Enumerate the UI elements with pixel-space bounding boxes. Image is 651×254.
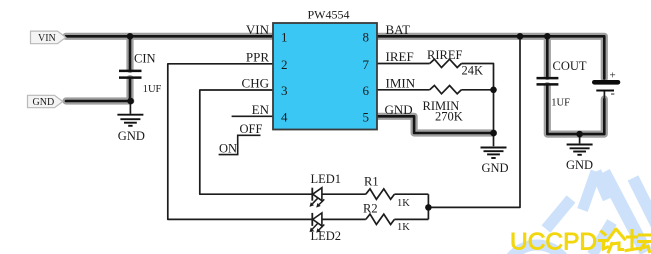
- svg-text:2: 2: [281, 57, 288, 72]
- svg-text:IMIN: IMIN: [386, 76, 416, 91]
- svg-text:24K: 24K: [462, 63, 484, 77]
- svg-text:EN: EN: [252, 102, 270, 117]
- svg-text:1K: 1K: [397, 198, 410, 209]
- LED2: [310, 213, 325, 233]
- svg-text:CHG: CHG: [242, 76, 269, 91]
- svg-text:5: 5: [363, 109, 370, 124]
- capacitor COUT: [537, 78, 559, 84]
- wire ground stub mid: [493, 133, 495, 146]
- terminal VIN: [31, 31, 66, 44]
- svg-text:GND: GND: [385, 102, 413, 117]
- node R1R2 join: [425, 204, 432, 211]
- svg-text:PPR: PPR: [246, 50, 269, 65]
- node VIN/CIN: [127, 33, 134, 40]
- wire LED2 to R2: [322, 218, 429, 220]
- thick wires: [66, 36, 604, 134]
- thin wires: [130, 36, 604, 219]
- IC U1 PW4554 body: [273, 23, 377, 130]
- ground (charger GND pin net): [481, 148, 507, 159]
- wire CHG to LED1: [200, 90, 312, 194]
- svg-text:R2: R2: [363, 202, 378, 216]
- svg-text:RIREF: RIREF: [427, 48, 462, 62]
- ground (battery/COUT rail): [567, 145, 593, 155]
- svg-text:GND: GND: [482, 161, 509, 175]
- wire BAT net: [377, 36, 604, 78]
- svg-text:COUT: COUT: [553, 59, 587, 73]
- watermark CJK LUN glyph: [600, 230, 625, 252]
- resistor RIMIN: [430, 86, 462, 94]
- svg-text:VIN: VIN: [246, 22, 270, 37]
- wire ground stub left: [129, 101, 131, 114]
- svg-text:4: 4: [281, 109, 288, 124]
- wire battery neg stub: [603, 91, 605, 101]
- wire PPR to LED2: [168, 64, 312, 220]
- svg-text:8: 8: [363, 29, 370, 44]
- wire ground stub right: [579, 134, 581, 143]
- svg-text:CIN: CIN: [134, 52, 156, 66]
- node GND join: [490, 130, 497, 137]
- switch annotation OFF/ON: [219, 135, 261, 154]
- svg-text:3: 3: [281, 83, 288, 98]
- wire IREF lead: [377, 64, 494, 134]
- svg-text:PW4554: PW4554: [308, 8, 350, 22]
- wire EN stub: [232, 115, 273, 117]
- svg-text:VIN: VIN: [38, 33, 56, 44]
- wire R1R2 join to BAT: [428, 36, 520, 219]
- resistor RIREF: [430, 59, 462, 67]
- capacitor CIN: [119, 71, 142, 78]
- svg-text:1: 1: [281, 29, 288, 44]
- battery B1: [594, 70, 618, 101]
- svg-text:UCCPD: UCCPD: [510, 229, 597, 254]
- node GND/CIN: [127, 98, 134, 105]
- svg-text:OFF: OFF: [240, 122, 263, 136]
- svg-text:1UF: 1UF: [143, 84, 162, 95]
- wire battery negative / bottom rail: [547, 86, 604, 135]
- wire GND left net: [66, 79, 131, 101]
- svg-text:+: +: [610, 70, 616, 82]
- svg-text:GND: GND: [33, 97, 55, 108]
- svg-text:-: -: [611, 85, 615, 100]
- node BAT/LED feed: [517, 33, 524, 40]
- watermark CJK TAN glyph: [626, 231, 651, 252]
- svg-text:1K: 1K: [397, 222, 410, 233]
- svg-text:270K: 270K: [435, 109, 463, 123]
- resistor R2: [366, 214, 395, 224]
- ground (under CIN): [117, 115, 143, 126]
- wire GND pin5 net: [377, 116, 494, 133]
- terminal GND: [28, 95, 63, 108]
- svg-text:IREF: IREF: [386, 49, 414, 64]
- svg-text:1UF: 1UF: [551, 98, 570, 109]
- LED1: [310, 188, 325, 208]
- resistor R1: [366, 189, 395, 199]
- svg-text:7: 7: [363, 57, 370, 72]
- wire VIN net: [66, 36, 273, 69]
- svg-text:LED2: LED2: [311, 229, 342, 243]
- svg-text:GND: GND: [566, 158, 593, 172]
- node rail/ground: [576, 131, 583, 138]
- wire IMIN lead: [377, 89, 494, 91]
- watermark blue letter strokes: [504, 172, 651, 254]
- svg-text:R1: R1: [364, 175, 379, 189]
- svg-text:ON: ON: [219, 142, 237, 156]
- node BAT/COUT: [544, 33, 551, 40]
- svg-text:LED1: LED1: [311, 172, 342, 186]
- wire LED1 to R1: [322, 193, 429, 195]
- node IMIN join: [490, 87, 497, 94]
- svg-text:GND: GND: [118, 129, 145, 143]
- svg-text:BAT: BAT: [386, 22, 411, 37]
- svg-text:6: 6: [363, 83, 370, 98]
